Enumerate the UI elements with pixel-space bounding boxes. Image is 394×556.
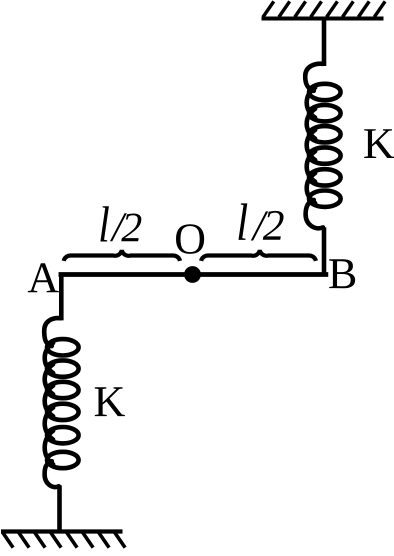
brace l/2 left (A to O) [64, 250, 180, 261]
brace l/2 right (O to B) [201, 250, 316, 261]
label K (right spring) [364, 129, 394, 158]
pivot dot at O [184, 266, 201, 283]
spring K right [305, 64, 340, 229]
label K (left spring) [95, 387, 125, 416]
label O (midpoint) [176, 224, 204, 254]
wire from spring to ground [57, 485, 62, 531]
ground wall [1, 529, 123, 533]
label B (right end of rod) [329, 259, 355, 288]
ceiling wall [262, 17, 384, 21]
wire from A to left spring [59, 275, 64, 321]
ceiling hatching [263, 1, 385, 17]
rod AB [61, 272, 326, 277]
label A (left end of rod) [28, 263, 59, 292]
label l/2 left [100, 206, 109, 241]
ground hatching [3, 533, 125, 548]
wire from spring to B [322, 227, 327, 274]
wire from ceiling to spring K right [322, 19, 327, 67]
label l/2 right [238, 203, 247, 240]
spring K left [44, 318, 78, 487]
